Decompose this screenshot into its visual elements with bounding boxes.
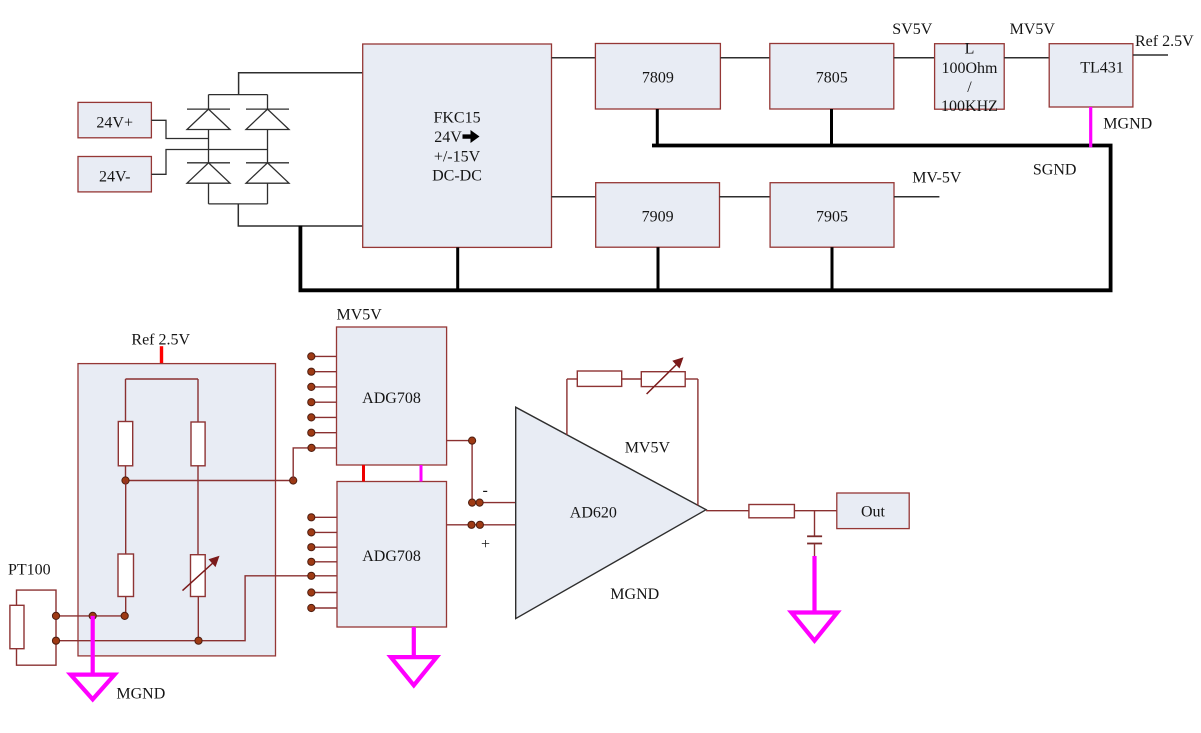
inductor L 100Ohm 100KHZ — [935, 41, 1005, 116]
wire AD620 out — [706, 510, 749, 512]
mux U2 ADG708 upper — [337, 327, 447, 465]
wire 7805 ground stub — [830, 109, 833, 146]
mux U3 ADG708 lower — [337, 482, 447, 628]
svg-text:DC-DC: DC-DC — [432, 167, 482, 184]
wire TL431 MGND magenta — [1089, 107, 1092, 147]
svg-text:ADG708: ADG708 — [362, 390, 421, 407]
dc-dc converter U1 FKC15 — [363, 44, 552, 247]
svg-text:-: - — [483, 482, 488, 499]
svg-text:SGND: SGND — [1033, 162, 1077, 179]
diode D2 — [246, 109, 289, 129]
variable resistor RV1 — [183, 555, 220, 641]
svg-text:SV5V: SV5V — [892, 21, 932, 38]
ground output — [791, 556, 837, 641]
svg-text:MGND: MGND — [1103, 115, 1152, 132]
svg-text:MV-5V: MV-5V — [912, 170, 962, 187]
junction dot A — [122, 477, 129, 484]
svg-text:100KHZ: 100KHZ — [941, 98, 998, 115]
junction dot G — [195, 637, 202, 644]
wire R2 to RV1 — [197, 466, 199, 555]
svg-text:7809: 7809 — [642, 70, 674, 87]
feedback variable resistor RV2 — [641, 357, 698, 505]
wire 7909 to 7905 — [720, 196, 771, 198]
svg-text:24V-: 24V- — [99, 169, 130, 186]
svg-text:7805: 7805 — [816, 70, 848, 87]
wire TL431 to Ref 2.5V — [1133, 54, 1168, 56]
svg-text:Out: Out — [861, 504, 886, 521]
junction dot D — [89, 612, 96, 619]
resistor R3 — [118, 481, 134, 616]
svg-text:MV5V: MV5V — [1010, 21, 1056, 38]
svg-text:ADG708: ADG708 — [362, 548, 421, 565]
svg-text:TL431: TL431 — [1080, 59, 1124, 76]
resistor PT100 — [10, 590, 56, 665]
wire mid rail to U2 pin — [293, 448, 337, 481]
wire bridge right column — [267, 95, 269, 204]
diode D4 — [246, 163, 289, 183]
ground bus SGND thick — [300, 146, 1110, 291]
op-amp U4 AD620 — [516, 407, 706, 618]
wire PT100 to R3 — [56, 615, 125, 617]
wire 7905 ground stub — [831, 247, 834, 290]
svg-text:AD620: AD620 — [570, 504, 617, 521]
wire 7809 ground stub — [656, 109, 659, 146]
wire U2 out to inverting input — [447, 437, 517, 506]
wire FKC15 ground stub — [456, 247, 459, 290]
ground MGND PT100 — [71, 616, 115, 699]
svg-text:/: / — [967, 79, 972, 96]
wire bridge to FKC15 top — [239, 73, 363, 95]
wire FKC15 to 7809 — [552, 57, 596, 59]
shunt reference TL431 — [1049, 44, 1133, 107]
wire 24V- to bridge — [151, 150, 267, 175]
wire 7909 ground stub — [657, 247, 660, 290]
regulator 7809 — [595, 44, 720, 110]
junction dot C — [52, 612, 59, 619]
wire bridge to FKC15 bottom — [238, 204, 362, 226]
input pins U3 — [308, 514, 337, 612]
wire U2-U3 link magenta — [420, 465, 423, 482]
svg-text:L: L — [965, 41, 975, 58]
svg-text:MGND: MGND — [116, 686, 165, 703]
wire Ref 2.5V stub red — [160, 346, 163, 379]
input pins U2 — [308, 353, 337, 452]
wire 7809 to 7805 — [720, 57, 769, 59]
capacitor C1 — [807, 511, 822, 556]
svg-text:7909: 7909 — [642, 209, 674, 226]
svg-text:MV5V: MV5V — [625, 440, 671, 457]
svg-text:FKC15: FKC15 — [433, 110, 480, 127]
wire bridge top rail — [209, 94, 268, 96]
svg-text:24V: 24V — [434, 129, 462, 146]
svg-text:24V+: 24V+ — [96, 115, 133, 132]
wire R5 to Out — [794, 510, 836, 512]
feedback resistor R4 — [567, 371, 622, 435]
junction dot F — [52, 637, 59, 644]
svg-text:Ref 2.5V: Ref 2.5V — [1135, 33, 1194, 50]
wire mid rail — [126, 480, 294, 482]
wire PT100 to U3 pin — [56, 576, 337, 641]
block 24V- — [78, 157, 151, 192]
diode D3 — [187, 163, 230, 183]
svg-text:+/-15V: +/-15V — [434, 148, 481, 165]
wire bridge bottom rail — [209, 203, 268, 205]
svg-text:+: + — [481, 536, 490, 553]
wire 7905 to MV-5V — [894, 196, 939, 198]
junction dot E — [121, 612, 128, 619]
junction dot B — [290, 477, 297, 484]
regulator 7805 — [770, 44, 894, 110]
wire bridge left column — [208, 95, 210, 204]
wire bridge top rail — [126, 378, 199, 380]
diode D1 — [187, 109, 230, 129]
wire U3 out to non-inverting input — [447, 521, 517, 528]
wire 24V+ to bridge — [151, 120, 208, 138]
resistor R1 — [118, 379, 132, 481]
wire R4 to RV2 — [622, 378, 642, 380]
ground U3 — [391, 627, 437, 685]
block 24V+ — [78, 102, 151, 137]
regulator 7905 — [770, 183, 894, 248]
svg-text:MGND: MGND — [610, 586, 659, 603]
wire 7805 to L — [894, 57, 935, 59]
wire L to TL431 — [1004, 57, 1049, 59]
regulator 7909 — [596, 183, 720, 248]
block Out — [837, 493, 909, 529]
svg-text:7905: 7905 — [816, 209, 848, 226]
bridge network box — [78, 364, 276, 656]
resistor R2 — [191, 379, 205, 466]
svg-text:100Ohm: 100Ohm — [942, 60, 999, 77]
output resistor R5 — [749, 505, 795, 518]
wire U2-U3 link red — [362, 465, 365, 482]
svg-text:PT100: PT100 — [8, 562, 51, 579]
wire FKC15 to 7909 — [552, 196, 596, 198]
svg-text:Ref 2.5V: Ref 2.5V — [131, 332, 190, 349]
svg-text:MV5V: MV5V — [337, 307, 383, 324]
